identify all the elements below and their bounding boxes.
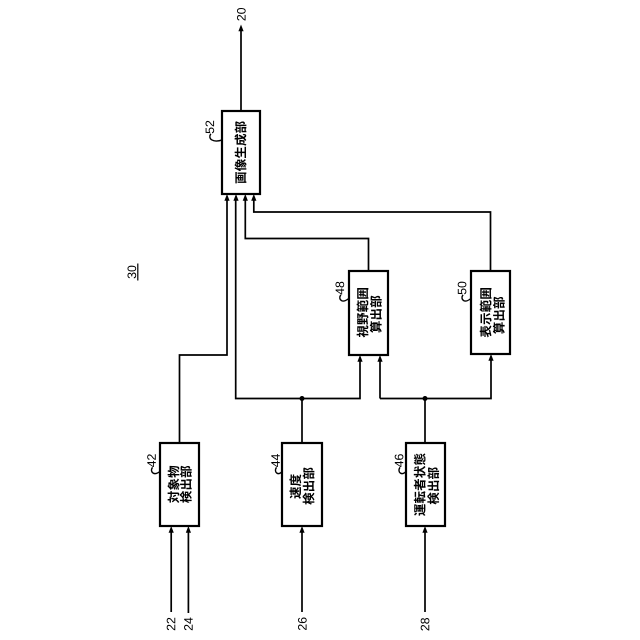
text 46 運転者状態 [414,504,425,516]
box 50 hyouji-hani-sanshutsu-bu [471,271,510,354]
box 42 taishoubutsu-kenshutsu-bu [160,443,199,526]
arrowhead output 20 [238,25,243,32]
wire 50 to 52 [254,199,491,271]
arrowhead into 52 from 48 [243,194,248,201]
box 48 shiya-hani-sanshutsu-bu [349,271,388,355]
arrowhead into 52 from 44 [233,194,238,201]
input wire 22 [170,531,172,612]
junction dot 46 [423,396,428,401]
text 50 算出部 [493,322,505,334]
arrowhead 22 into 42 [169,526,174,533]
leader 48 [340,295,350,301]
label 42 [147,454,156,467]
label 20 [237,8,246,21]
label 48 [335,282,344,295]
label 46 [395,454,404,467]
text 44 検出部 [303,493,315,505]
leader 46 [399,467,407,473]
box 52 gazou-seisei-bu [222,111,260,194]
leader 52 [210,134,223,141]
arrowhead 24 into 42 [186,526,191,533]
label 44 [271,454,279,467]
junction dot 44 [300,396,305,401]
label 50 [458,282,467,295]
text 42 検出部 [180,491,192,503]
text 48 視野範囲 [357,325,369,337]
label 52 [205,121,214,134]
text 44 速度 [289,487,301,499]
box 46 untensha-joutai-kenshutsu-bu [406,443,445,526]
wire 42 to 52 [180,199,228,443]
leader 44 [275,467,282,473]
wire output 52 to 20 [240,30,242,111]
text 52 画像生成部 [235,172,246,183]
text 50 表示範囲 [480,325,492,337]
text 46 検出部 [427,492,439,504]
label 22 [167,618,176,630]
leader 50 [462,295,472,301]
arrowhead 26 into 44 [299,526,304,533]
wire 46 to 48 and 50 [380,359,491,443]
arrowhead 28 into 46 [422,526,427,533]
text 48 算出部 [370,321,382,333]
label 26 [298,617,307,630]
leader 42 [151,467,160,473]
wire 44 to 48 [302,360,360,443]
arrowhead into 48 left [357,355,362,362]
label 24 [184,618,193,631]
input wire 28 [424,531,426,612]
text 42 対象物 [168,491,180,503]
input wire 26 [301,531,303,612]
arrowhead into 50 [488,354,493,361]
box 44 sokudo-kenshutsu-bu [282,443,322,526]
underline 30 [137,264,139,281]
arrowhead into 52 from 50 [251,194,256,201]
wire 48 to 52 [245,199,368,271]
arrowhead into 48 right [377,355,382,362]
label 30 underlined [127,266,136,279]
input wire 24 [187,531,189,613]
wire 44 junction to 52 [236,199,302,399]
arrowhead into 52 from 42 [224,194,229,201]
label 28 [421,618,430,631]
